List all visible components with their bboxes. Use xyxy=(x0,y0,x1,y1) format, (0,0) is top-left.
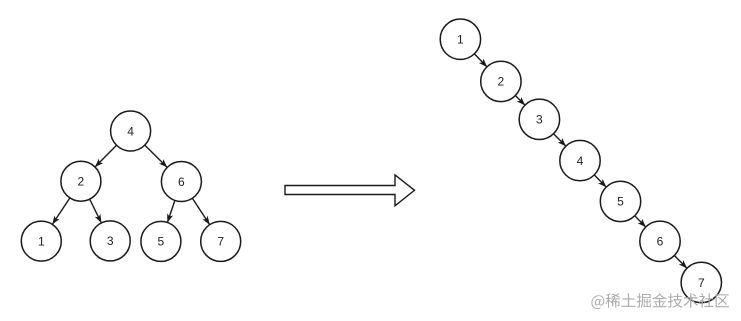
wire edge 4->6 xyxy=(145,145,167,167)
tree node 4 xyxy=(111,111,151,151)
list node 2 xyxy=(481,61,521,101)
wire edge list 2->3 xyxy=(515,95,525,105)
list node 7 xyxy=(681,262,721,302)
wire edge 4->2 xyxy=(95,145,117,167)
list node 3 xyxy=(519,99,559,139)
block arrow tree-to-list xyxy=(285,175,415,206)
svg-text:5: 5 xyxy=(617,195,624,209)
svg-text:3: 3 xyxy=(536,113,543,127)
list node 4 xyxy=(560,140,600,180)
svg-text:2: 2 xyxy=(498,75,505,89)
svg-text:1: 1 xyxy=(38,234,45,248)
list node 6 xyxy=(640,221,680,261)
wire edge 2->3 xyxy=(90,199,102,223)
svg-text:3: 3 xyxy=(107,234,114,248)
wire edge list 5->6 xyxy=(635,216,646,228)
wire edge list 4->5 xyxy=(594,175,606,187)
svg-text:6: 6 xyxy=(178,175,185,189)
svg-text:5: 5 xyxy=(158,235,165,249)
tree node 5 xyxy=(141,221,181,261)
tree node 3 xyxy=(90,221,130,261)
svg-text:6: 6 xyxy=(657,235,664,249)
wire edge 6->5 xyxy=(167,200,175,222)
wire edge list 1->2 xyxy=(474,54,487,67)
tree node 1 xyxy=(21,221,61,261)
svg-text:7: 7 xyxy=(698,276,705,290)
wire edge list 3->4 xyxy=(553,134,566,147)
svg-text:1: 1 xyxy=(457,33,464,47)
svg-text:4: 4 xyxy=(577,154,584,168)
tree node 7 xyxy=(201,221,241,261)
list node 5 xyxy=(600,181,640,221)
svg-text:4: 4 xyxy=(127,124,134,138)
svg-text:7: 7 xyxy=(217,235,224,249)
tree node 6 xyxy=(161,162,201,202)
wire edge 2->1 xyxy=(52,198,70,225)
svg-text:2: 2 xyxy=(78,175,85,189)
wire edge list 6->7 xyxy=(674,255,687,268)
wire edge 6->7 xyxy=(192,198,209,225)
watermark @xitu juejin community xyxy=(591,293,728,309)
list node 1 xyxy=(440,19,480,59)
tree node 2 xyxy=(61,161,101,201)
